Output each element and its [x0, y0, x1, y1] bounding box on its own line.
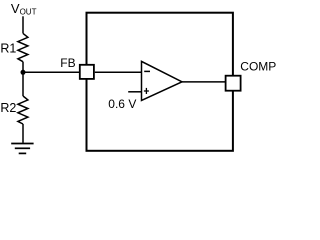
plus sign (non-inverting input): [144, 90, 149, 92]
wire node to FB pin: [23, 71, 80, 73]
svg-text:0.6 V: 0.6 V: [108, 97, 136, 111]
node junction dot: [21, 70, 26, 75]
op-amp U1: [142, 61, 183, 100]
svg-text:R1: R1: [0, 42, 16, 56]
minus sign (inverting input): [144, 70, 150, 72]
svg-text:FB: FB: [60, 56, 75, 70]
svg-text:COMP: COMP: [240, 60, 276, 74]
wire 0.6V reference stub to non-inverting input: [128, 91, 142, 93]
pin COMP: [226, 76, 241, 91]
resistor R2: [18, 96, 28, 124]
wire op-amp output to COMP pin: [182, 81, 226, 83]
ground: [11, 144, 33, 154]
wire R2 to ground: [22, 124, 24, 143]
wire VOUT to R1: [22, 16, 24, 33]
resistor R1: [18, 33, 28, 61]
IC box: [87, 13, 233, 151]
pin FB: [80, 65, 94, 79]
wire R1 to R2 through node: [22, 62, 24, 96]
wire FB to op-amp inverting input: [95, 71, 142, 73]
svg-text:R2: R2: [0, 101, 16, 115]
